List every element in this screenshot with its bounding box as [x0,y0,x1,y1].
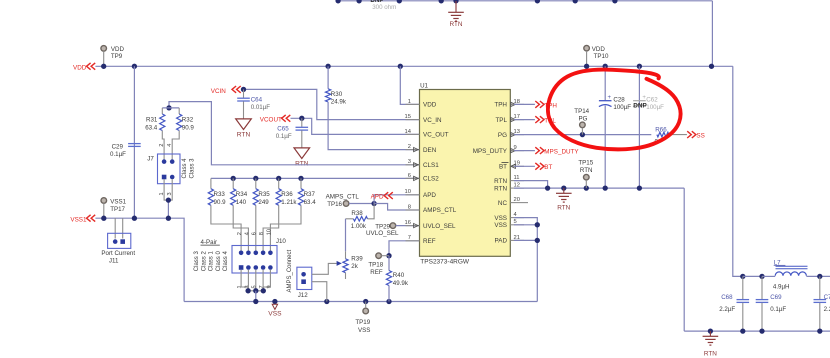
junction top x=441.2 [439,0,444,3]
testpoint TP14 [580,122,586,135]
wire VDD right drop [733,66,743,276]
svg-text:C69: C69 [770,294,782,301]
net label MPS_DUTY [514,147,579,155]
inductor L7 [775,266,807,276]
connector J11 [108,233,131,248]
wire PAD pin21 [514,239,537,241]
svg-text:VSS: VSS [494,222,507,229]
svg-text:8: 8 [408,204,411,210]
annotation hand-drawn ellipse [548,70,681,150]
junction CLS2-R34 [231,176,236,181]
pin 14 VC_OUT U1 [405,129,449,139]
svg-text:VCOUT: VCOUT [260,116,282,123]
svg-text:DNP: DNP [633,102,647,109]
svg-text:TPL: TPL [495,117,507,124]
svg-text:4: 4 [167,144,173,147]
resistor R40 [386,256,391,302]
svg-text:R38: R38 [351,210,363,217]
label Class 0 J10 [216,251,222,272]
svg-text:TP19: TP19 [355,319,370,326]
wire VSS rail [184,301,537,303]
junction RTN-pin11 [545,185,550,190]
pin 1 VDD U1 [406,99,437,109]
svg-text:R33: R33 [214,191,226,198]
wire R38 to R39 [345,219,347,252]
svg-text:5: 5 [252,285,258,288]
wire TP29 to UVLO pin16 [396,225,420,227]
net label VCIN [211,86,241,95]
label C70 [824,294,830,313]
label TP15 [578,160,593,174]
capacitor C70 [814,276,827,331]
label C69 [770,294,786,313]
svg-text:C70: C70 [824,294,830,301]
label C62 [646,97,664,112]
svg-text:2.2µF: 2.2µF [719,306,735,313]
resistor R33 [208,178,241,250]
wire RTN right drop [683,188,685,331]
svg-text:BT: BT [499,164,507,171]
junction top x=399.3 [397,0,402,3]
label R33 [214,191,227,206]
junction CLS2-R35 [253,176,258,181]
svg-text:6: 6 [408,173,411,179]
svg-text:1: 1 [408,99,411,105]
svg-text:1.00k: 1.00k [351,223,367,230]
svg-text:SS: SS [696,133,704,140]
svg-text:RTN: RTN [295,161,309,168]
pin number 7 J10 bottom [259,285,265,288]
resistor R36 [263,178,281,250]
junction L7row-C70 [817,274,822,279]
junction top x=575.2 [573,0,578,3]
junction VDD-C28 [603,64,608,69]
wire RTN rail [514,187,684,189]
svg-text:Class 4: Class 4 [182,158,188,179]
svg-text:BT: BT [544,164,552,171]
svg-text:Class 0: Class 0 [216,251,222,272]
label TPS2373-4RGW [420,259,470,266]
svg-text:0.01µF: 0.01µF [251,104,271,111]
svg-text:TP10: TP10 [594,53,609,60]
wire R30 top [327,66,329,89]
label Class3 J7 [189,158,195,179]
pin 5 VSS U1 [494,219,524,229]
connector J10 [232,246,277,274]
wire VSS pin5 [514,224,537,226]
svg-text:2: 2 [408,144,411,150]
svg-text:10: 10 [266,229,272,235]
wire VSS pin4 [514,218,537,302]
junction top x=338.1 [335,0,340,3]
wire R31R32 bracket [162,107,179,109]
pin number 4 J7 [167,144,173,147]
label L7 [774,259,786,266]
junction VDD-pin1 [398,64,403,69]
svg-text:PG: PG [498,132,507,139]
junction R31R32 top [166,105,171,110]
svg-text:CLS1: CLS1 [423,162,439,169]
junction VDD-TP9 [101,64,106,69]
svg-text:C64: C64 [251,96,263,103]
svg-text:63.4: 63.4 [145,124,158,131]
resistor R38 [346,204,375,222]
pin 19 BT U1 [499,161,524,171]
pin number 2 J7 [159,144,165,147]
junction top x=537.4 [535,0,540,3]
svg-text:R30: R30 [331,91,343,98]
svg-text:140: 140 [236,199,247,206]
label R40 [393,272,409,287]
svg-text:TP16: TP16 [327,201,342,208]
junction VSS-TP19 [363,299,368,304]
svg-text:20: 20 [514,197,520,203]
label J12 [298,292,309,299]
junction bottom-RTN-gnd [708,328,713,333]
pin 18 TPH U1 [494,99,524,109]
svg-text:DEN: DEN [423,147,437,154]
ground RTN below C64 [236,119,252,139]
svg-text:TP14: TP14 [574,108,589,115]
net label SS [687,131,705,140]
label R32 [182,116,195,131]
wire J12 pin1 to R39 wiper [312,261,342,274]
svg-text:0.1µF: 0.1µF [770,306,786,313]
svg-text:TPH: TPH [494,102,507,109]
label R37 [304,191,317,206]
label U1 [420,83,428,90]
pin number 4 J10 top [244,232,250,235]
power symbol VSS [268,299,282,318]
label TP17 [110,199,126,213]
svg-text:J7: J7 [147,155,154,162]
svg-text:AMPS_Connect: AMPS_Connect [287,249,293,292]
svg-text:C29: C29 [112,143,124,150]
svg-text:U1: U1 [420,83,428,90]
svg-text:R39: R39 [351,256,363,263]
svg-text:RTN: RTN [704,350,717,357]
resistor R39 [343,251,348,279]
label C65 [276,125,292,140]
svg-text:AMPS_CTL: AMPS_CTL [423,207,457,214]
label C28 [613,97,631,112]
testpoint TP16 [327,201,349,209]
wire J7 bottom [164,179,172,218]
ground RTN mid [556,188,572,212]
pin number 8 J10 top [259,232,265,235]
label R34 [236,191,248,206]
wire J10 bottom leads [241,270,270,291]
pin 11 RTN U1 [494,175,524,185]
net label APD [371,192,393,200]
svg-text:4.9µH: 4.9µH [773,284,790,291]
value L7 [773,284,790,291]
pin 15 VC_IN U1 [405,114,442,124]
pin number 6 J10 top [252,232,258,235]
wire REF pin7 [389,241,420,256]
svg-text:2.2µF: 2.2µF [824,306,830,313]
label TP19 [355,319,370,334]
resistor DNP label (cut off) [370,0,383,4]
wire C62 column [638,66,640,188]
label J11 [101,250,135,264]
svg-text:C68: C68 [721,294,733,301]
svg-text:R40: R40 [393,272,405,279]
svg-text:VDD: VDD [592,46,606,53]
svg-text:REF: REF [370,269,383,276]
ground RTN top [448,1,464,28]
net label TPH [514,101,557,109]
svg-text:PG: PG [579,115,588,122]
svg-text:APD: APD [371,194,384,201]
testpoint TP19 [363,302,369,314]
svg-text:VC_IN: VC_IN [423,117,442,124]
label TP18 [368,261,383,276]
label AMPS_Connect [287,249,293,292]
pin 16 UVLO_SEL U1 [405,220,457,230]
svg-text:R31: R31 [146,116,158,123]
wire top horizontal net [337,0,712,2]
pin number 5 J10 bottom [252,285,258,288]
junction C70-bottom [817,328,822,333]
junction top-vert [709,64,714,69]
svg-text:2: 2 [159,144,165,147]
svg-text:TP9: TP9 [111,53,123,60]
label R66 [655,127,667,134]
net label BT [514,163,552,171]
label R35 [258,191,270,206]
resistor R32 [172,108,182,159]
wire bottom rail [684,330,830,332]
svg-text:APD: APD [423,192,436,199]
junction VSS1-C29 [132,216,137,221]
op-amp U1 body [420,90,511,257]
pin number 3 J10 bottom [244,285,250,288]
capacitor C69 [756,276,769,331]
wire L7 row a [743,275,762,277]
label R36 [281,191,297,206]
junction C68-bottom [740,328,745,333]
svg-text:0.1µF: 0.1µF [110,151,126,158]
svg-text:300 ohm: 300 ohm [372,4,396,11]
svg-text:R36: R36 [281,191,293,198]
svg-text:R35: R35 [258,191,270,198]
testpoint TP15 [584,174,590,188]
svg-text:REF: REF [423,238,436,245]
label Class 3 J10 [194,251,200,272]
svg-text:Class 2: Class 2 [201,251,207,272]
svg-text:Port Current: Port Current [101,250,135,257]
label C29 [110,143,126,158]
wire node to APD pin10 [374,195,419,204]
net label TPL [514,116,556,124]
junction L7row-C68 [740,274,745,279]
svg-text:VSS: VSS [494,215,507,222]
junction VSS-J12 [324,299,329,304]
svg-text:UVLO_SEL: UVLO_SEL [423,223,456,230]
label Class 2 J10 [201,251,207,272]
junction CLS2-R37 [298,176,303,181]
label UVLO_SEL [366,230,399,237]
wire C29 column [133,66,135,218]
wire node to AMPS_CTL pin8 [374,204,419,211]
svg-text:VDD: VDD [111,46,125,53]
svg-text:+: + [608,95,612,101]
junction VDD-TP10 [584,64,589,69]
svg-text:0.1µF: 0.1µF [276,133,292,140]
label J10 [276,238,287,245]
pin 8 AMPS_CTL U1 [406,204,457,214]
capacitor C62 DNP symbol [633,95,646,107]
svg-text:C28: C28 [613,97,625,104]
svg-text:Class 3: Class 3 [194,251,200,272]
svg-text:49.9k: 49.9k [393,280,409,287]
ground RTN below C65 [294,148,310,168]
resistor R35 [253,178,258,250]
resistor R37 [270,178,303,250]
svg-text:VSS1: VSS1 [70,217,87,224]
label Class 1 J10 [209,251,215,272]
junction top x=359.1 [356,0,361,3]
svg-text:VDD: VDD [73,64,87,71]
pin number 9 J10 bottom [266,285,272,288]
svg-text:RTN: RTN [237,132,251,139]
pin 20 NC U1 [498,197,524,207]
svg-text:RTN: RTN [494,178,507,185]
svg-text:R32: R32 [182,116,194,123]
svg-text:8: 8 [259,232,265,235]
junction VCIN-C64 [241,87,246,92]
label TP10 [592,46,609,60]
testpoint TP29 [375,223,395,231]
pin 21 PAD U1 [495,235,524,245]
svg-text:MPS_DUTY: MPS_DUTY [544,149,579,156]
junction RTN-C62 [637,185,642,190]
svg-text:RTN: RTN [449,21,462,28]
label R30 [331,91,347,106]
svg-text:6: 6 [252,232,258,235]
pin 4 VSS U1 [494,212,524,222]
svg-text:TP17: TP17 [110,206,125,213]
svg-text:CLS2: CLS2 [423,176,439,183]
junction VDD-R30 [325,64,330,69]
svg-text:VC_OUT: VC_OUT [423,132,449,139]
svg-text:249: 249 [258,199,269,206]
svg-text:63.4: 63.4 [304,199,317,206]
testpoint TP18 [376,253,389,259]
wire VDD rail [95,65,732,67]
junction REF-TP18 [386,253,391,258]
connector J12 [297,267,312,289]
svg-text:16: 16 [405,220,411,226]
wire TP16 to node [349,203,374,205]
junction J10 bar b [253,288,258,293]
pin 3 CLS1 U1 [406,159,440,169]
svg-text:RTN: RTN [557,205,570,212]
svg-text:14: 14 [405,129,412,135]
capacitor C29 [128,144,141,147]
svg-text:R66: R66 [655,127,667,134]
svg-text:J12: J12 [298,292,309,299]
svg-text:MPS_DUTY: MPS_DUTY [473,148,508,155]
junction top x=614.9 [612,0,617,3]
svg-text:PAD: PAD [495,238,508,245]
wire J10 to VSS rail [255,291,257,302]
junction VCOUT-C65 [299,116,304,121]
svg-text:90.9: 90.9 [182,124,195,131]
label DNP [633,102,647,109]
label 4-Pair [201,239,220,246]
junction RTN-C28 [603,185,608,190]
svg-text:3: 3 [408,159,411,165]
svg-text:TPS2373-4RGW: TPS2373-4RGW [420,259,470,266]
pin 2 DEN U1 [406,144,437,154]
label TP14 [574,108,589,122]
junction pin5 [535,222,540,227]
svg-text:RTN: RTN [580,167,593,174]
capacitor C68 [737,276,750,331]
junction CLS2-R36 [276,176,281,181]
wire VDD to pin1 [400,66,419,104]
resistor R34 [231,178,249,250]
pin 6 CLS2 U1 [406,173,440,183]
svg-text:VCIN: VCIN [211,88,226,95]
svg-text:VSS1: VSS1 [110,199,126,206]
wire J12 pin2 to VSS [312,282,327,302]
svg-text:90.9: 90.9 [214,199,227,206]
junction C69-bottom [759,328,764,333]
pin number 3 J7 [167,192,173,195]
pin number 2 J10 top [237,232,243,235]
label Class 4 J10 [223,251,229,272]
junction VDD-C62 [637,64,642,69]
label R31 [145,116,158,131]
svg-text:TP18: TP18 [368,261,383,268]
svg-text:UVLO_SEL: UVLO_SEL [366,230,399,237]
capacitor C64 [237,89,250,119]
pin 13 PG U1 [498,129,524,139]
svg-text:2k: 2k [351,263,358,270]
svg-text:15: 15 [405,114,411,120]
junction L7row-C69 [759,274,764,279]
pin 7 REF U1 [406,235,436,245]
wire NC stub [524,202,528,204]
junction VSS1-J7 [166,216,171,221]
wire top right vertical [711,1,713,67]
value R66 0 [655,139,659,146]
svg-text:J10: J10 [276,238,287,245]
junction J10 bar a [245,288,250,293]
wire R30 to DEN pin2 [328,102,419,150]
junction top x=456 [453,0,458,3]
svg-text:Class 3: Class 3 [189,158,195,179]
connector J7 [158,154,181,184]
svg-text:AMPS_CTL: AMPS_CTL [326,193,360,200]
wire L7 row b [762,275,775,277]
label R38 [351,210,367,230]
value 300 ohm (gray) [372,4,396,11]
resistor R31 [160,108,165,159]
junction AMPS node [371,201,376,206]
svg-text:C62: C62 [646,97,658,104]
label J7 [147,155,154,162]
svg-text:VDD: VDD [423,102,437,109]
wire J11 leads [115,218,123,238]
svg-text:100µF: 100µF [613,104,631,111]
junction RTN-gnd [561,185,566,190]
label AMPS_CTL [326,193,360,200]
testpoint TP17 [101,198,107,219]
